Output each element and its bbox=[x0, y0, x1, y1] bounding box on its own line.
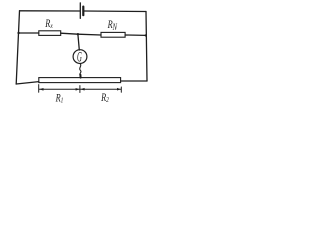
wire node B to galvanometer bbox=[78, 34, 79, 50]
wire galvanometer to wiper (flexible lead) bbox=[80, 64, 81, 76]
resistor R_N body bbox=[101, 32, 125, 37]
node B (mid junction) bbox=[77, 33, 79, 35]
dimension tick middle bbox=[79, 86, 81, 93]
svg-text:Rx: Rx bbox=[44, 18, 52, 31]
battery E short plate bbox=[82, 7, 84, 16]
node A (left junction) bbox=[17, 32, 19, 34]
wire bottom left segment bbox=[16, 82, 39, 84]
wire top right segment bbox=[84, 10, 146, 13]
svg-text:R1: R1 bbox=[55, 92, 64, 105]
wire bottom right segment bbox=[121, 80, 147, 82]
wire top left segment bbox=[20, 10, 80, 12]
node C (right junction) bbox=[145, 34, 147, 36]
slide wire R1+R2 body bbox=[39, 78, 121, 83]
dimension line R1 span bbox=[39, 88, 79, 91]
svg-text:G: G bbox=[77, 48, 82, 65]
dimension line R2 span bbox=[80, 88, 120, 91]
wire right side bbox=[146, 12, 147, 82]
wire node A to R_x bbox=[19, 32, 39, 34]
wire R_N to node C bbox=[125, 34, 146, 36]
svg-text:R2: R2 bbox=[100, 92, 109, 105]
resistor R_x body bbox=[39, 31, 61, 36]
svg-text:RN: RN bbox=[107, 19, 118, 33]
dimension tick left bbox=[38, 85, 40, 93]
wire left side bbox=[16, 11, 19, 84]
dimension tick right bbox=[120, 87, 122, 92]
wiper contact on slide wire bbox=[79, 75, 81, 78]
wire R_x to node B bbox=[61, 33, 78, 34]
galvanometer G body bbox=[73, 50, 87, 64]
battery E long plate bbox=[79, 3, 81, 19]
wire node B to R_N bbox=[78, 33, 101, 36]
